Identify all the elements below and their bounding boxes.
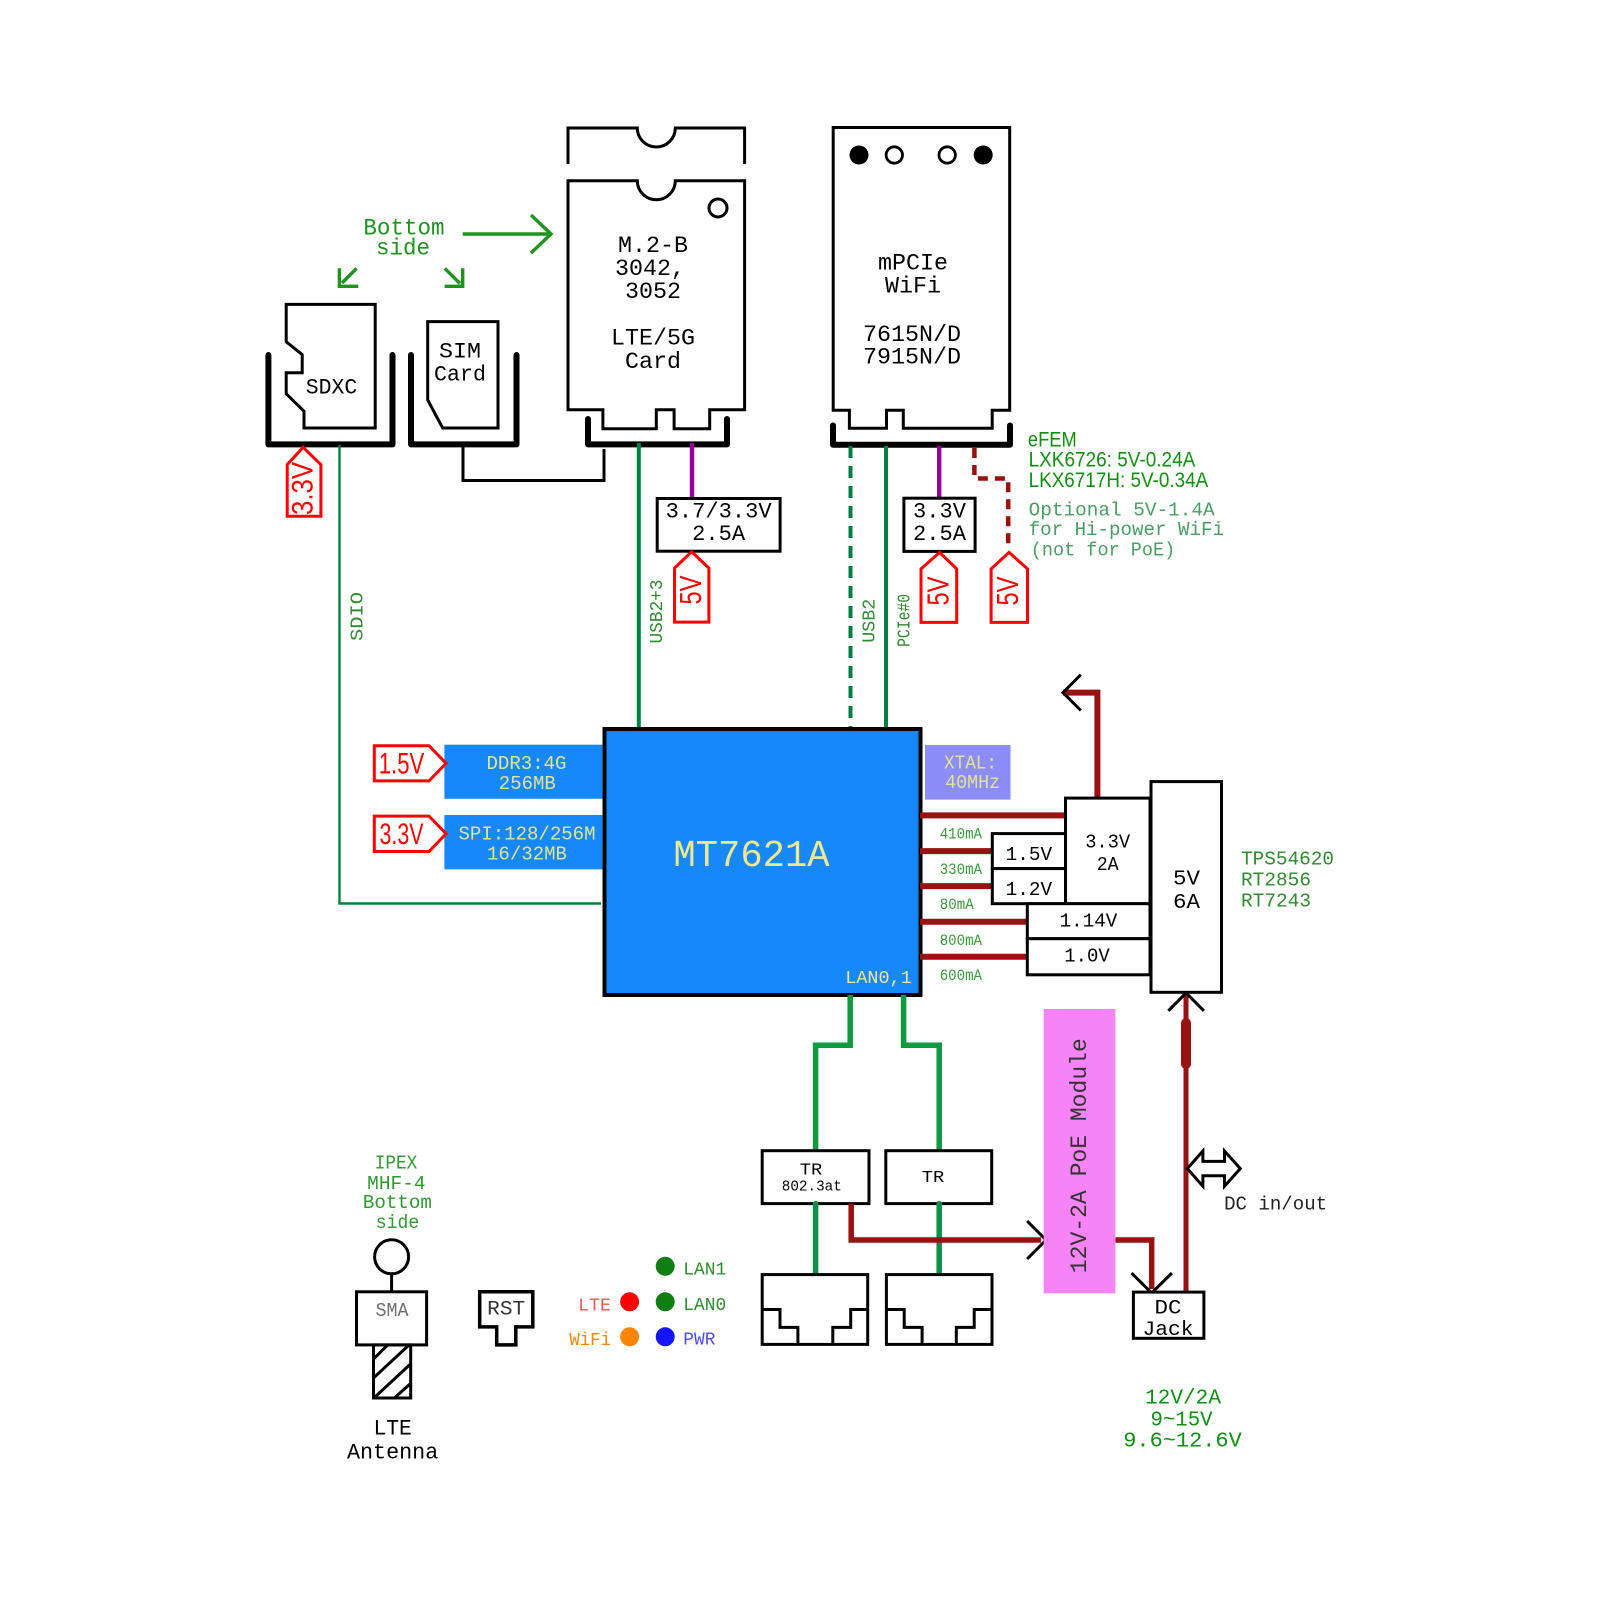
svg-text:12V-2A PoE Module: 12V-2A PoE Module: [1067, 1038, 1093, 1273]
svg-text:DDR3:4G: DDR3:4G: [487, 753, 567, 775]
svg-text:MT7621A: MT7621A: [673, 835, 829, 878]
svg-text:5V: 5V: [990, 576, 1025, 605]
svg-text:3.3V: 3.3V: [287, 462, 320, 515]
svg-text:PWR: PWR: [683, 1330, 715, 1351]
svg-text:Bottom: Bottom: [363, 1192, 432, 1214]
svg-text:LTE/5G: LTE/5G: [611, 326, 695, 352]
svg-text:Card: Card: [625, 349, 681, 375]
svg-text:side: side: [376, 1212, 420, 1234]
svg-text:1.2V: 1.2V: [1006, 879, 1053, 901]
svg-text:16/32MB: 16/32MB: [487, 843, 567, 865]
svg-text:LTE: LTE: [578, 1296, 611, 1317]
svg-text:3.3V: 3.3V: [913, 500, 967, 525]
svg-text:USB2: USB2: [861, 599, 881, 643]
svg-text:256MB: 256MB: [499, 773, 556, 795]
svg-text:LAN1: LAN1: [683, 1259, 726, 1280]
svg-text:802.3at: 802.3at: [782, 1180, 842, 1196]
svg-text:7915N/D: 7915N/D: [863, 345, 961, 371]
svg-text:5V: 5V: [1173, 868, 1200, 892]
svg-text:SPI:128/256M: SPI:128/256M: [459, 824, 596, 846]
svg-text:2.5A: 2.5A: [692, 522, 746, 547]
svg-text:3.3V: 3.3V: [380, 818, 424, 851]
svg-text:1.14V: 1.14V: [1060, 911, 1118, 933]
svg-text:2A: 2A: [1097, 854, 1119, 876]
svg-text:12V/2A: 12V/2A: [1145, 1388, 1221, 1411]
svg-text:TR: TR: [922, 1169, 945, 1188]
svg-text:RT2856: RT2856: [1241, 870, 1311, 892]
svg-text:1.5V: 1.5V: [379, 748, 425, 781]
svg-text:RST: RST: [487, 1299, 525, 1322]
svg-text:5V: 5V: [673, 575, 708, 604]
svg-text:DC: DC: [1155, 1298, 1182, 1321]
svg-text:9~15V: 9~15V: [1151, 1410, 1213, 1433]
svg-text:Antenna: Antenna: [347, 1441, 438, 1466]
svg-text:410mA: 410mA: [940, 826, 983, 844]
svg-text:SIM: SIM: [439, 340, 481, 365]
svg-text:LTE: LTE: [373, 1417, 411, 1442]
svg-text:SMA: SMA: [376, 1300, 410, 1322]
svg-text:3052: 3052: [625, 279, 681, 305]
svg-text:800mA: 800mA: [940, 932, 983, 950]
svg-text:80mA: 80mA: [940, 896, 974, 914]
svg-text:TR: TR: [800, 1162, 823, 1181]
svg-text:TPS54620: TPS54620: [1241, 849, 1334, 871]
svg-text:3.7/3.3V: 3.7/3.3V: [666, 500, 773, 525]
svg-text:SDXC: SDXC: [306, 376, 358, 401]
svg-text:LKX6717H: 5V-0.34A: LKX6717H: 5V-0.34A: [1029, 469, 1209, 492]
svg-text:side: side: [376, 236, 430, 262]
svg-text:DC in/out: DC in/out: [1224, 1194, 1327, 1216]
svg-text:SDIO: SDIO: [349, 592, 369, 641]
svg-text:for Hi-power WiFi: for Hi-power WiFi: [1029, 519, 1224, 541]
svg-text:330mA: 330mA: [940, 861, 983, 879]
svg-text:(not for PoE): (not for PoE): [1031, 540, 1175, 562]
svg-text:9.6~12.6V: 9.6~12.6V: [1123, 1431, 1242, 1454]
svg-text:WiFi: WiFi: [885, 274, 941, 300]
svg-text:IPEX: IPEX: [375, 1153, 418, 1175]
svg-text:Card: Card: [434, 363, 486, 388]
svg-text:40MHz: 40MHz: [945, 772, 1000, 794]
svg-text:1.5V: 1.5V: [1006, 844, 1053, 866]
svg-text:2.5A: 2.5A: [913, 522, 967, 547]
svg-text:Jack: Jack: [1143, 1319, 1194, 1342]
svg-text:600mA: 600mA: [940, 967, 983, 985]
svg-text:1.0V: 1.0V: [1064, 946, 1110, 968]
svg-text:LAN0,1: LAN0,1: [845, 968, 911, 989]
svg-text:6A: 6A: [1173, 891, 1200, 915]
svg-text:USB2+3: USB2+3: [648, 580, 668, 644]
svg-text:WiFi: WiFi: [569, 1330, 611, 1351]
svg-text:3.3V: 3.3V: [1085, 832, 1130, 854]
svg-text:5V: 5V: [921, 576, 956, 605]
svg-text:LAN0: LAN0: [683, 1295, 726, 1316]
svg-text:RT7243: RT7243: [1241, 891, 1311, 913]
svg-text:PCIe#0: PCIe#0: [896, 594, 916, 647]
